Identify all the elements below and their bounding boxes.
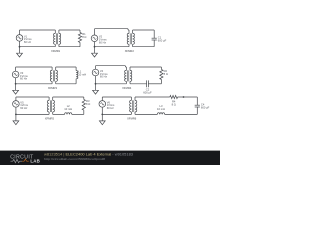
voltage source V2 <box>91 35 98 42</box>
label V5 value <box>20 100 28 110</box>
wire V3 bottom to XFMR3 primary <box>16 83 53 85</box>
resistor R2 8 &#937; <box>160 67 163 84</box>
wire V4 top wire upper segment <box>96 65 126 67</box>
wire XFMR3 secondary bottom to L1 <box>56 83 76 85</box>
wire XFMR4 secondary bottom to C2 <box>130 83 147 85</box>
svg-text:8 Ω: 8 Ω <box>164 72 168 76</box>
svg-text:XFMR5: XFMR5 <box>45 117 55 121</box>
wire V5 bottom to XFMR5 primary <box>16 113 49 115</box>
wire XFMR6 secondary top to R4 <box>135 96 170 98</box>
transformer XFMR1 primary winding <box>54 30 56 47</box>
label L1 value <box>78 70 86 77</box>
wire V2 top wire jog <box>127 29 129 30</box>
node junction at V1 <box>19 46 21 48</box>
node junction at V5 <box>15 114 17 116</box>
label V1 value <box>24 34 32 44</box>
svg-text:XFMR6: XFMR6 <box>127 117 137 121</box>
transformer XFMR3 core <box>53 70 54 81</box>
wire V2 bottom lead <box>94 42 96 47</box>
node junction at V2 <box>94 46 96 48</box>
wire V3 bottom lead <box>15 78 17 84</box>
wire V4 bottom to XFMR4 primary <box>96 83 127 85</box>
ground V1 <box>17 47 23 57</box>
CircuitLab logo waveform <box>11 159 23 162</box>
label C4 value <box>201 103 210 110</box>
svg-text:XFMR2: XFMR2 <box>125 49 135 53</box>
label V2 value <box>99 35 107 45</box>
node junction at V6 <box>101 114 103 116</box>
label L3 value <box>157 104 165 111</box>
label C2 value <box>143 88 152 95</box>
transformer XFMR2 secondary winding <box>133 30 135 47</box>
wire V1 bottom to XFMR1 primary <box>20 46 56 48</box>
label V4 value <box>100 69 108 79</box>
transformer XFMR1 core <box>57 33 58 44</box>
wire XFMR1 secondary bottom to R1 <box>59 46 80 48</box>
wire L3 to C4 bottom <box>165 113 198 115</box>
svg-text:60 Hz: 60 Hz <box>99 41 107 45</box>
ground V4 <box>93 84 99 94</box>
label R1 value <box>82 32 86 39</box>
wire V6 top to XFMR6 primary <box>102 96 131 98</box>
CircuitLab logo waveform orange segment <box>22 159 29 161</box>
label V6 value <box>107 100 115 110</box>
wire XFMR3 secondary top to L1 <box>56 66 76 68</box>
label C1 value <box>158 36 167 43</box>
voltage source V1 <box>16 35 23 42</box>
svg-text:60 Hz: 60 Hz <box>107 106 115 110</box>
wire XFMR5 secondary bottom to L2 <box>53 113 65 115</box>
transformer XFMR1 secondary winding <box>59 30 61 47</box>
wire V1 top lead <box>19 30 21 35</box>
svg-text:60 Hz: 60 Hz <box>20 77 28 81</box>
resistor R4 8 &#937; <box>170 95 178 98</box>
svg-text:XFMR1: XFMR1 <box>51 49 61 53</box>
transformer XFMR5 core <box>50 100 51 112</box>
wire V3 top lead <box>15 67 17 71</box>
inductor L2 10 mH <box>65 113 72 115</box>
transformer XFMR6 secondary winding <box>135 97 137 114</box>
wire V4 top to XFMR4 primary <box>125 66 126 68</box>
resistor R1 8 &#937; <box>78 30 81 47</box>
wire L2 to R3 bottom <box>72 113 84 115</box>
node junction at V3 <box>15 83 17 85</box>
transformer XFMR5 secondary winding <box>53 97 55 114</box>
svg-text:XFMR3: XFMR3 <box>48 86 58 90</box>
footer bar <box>0 151 220 165</box>
svg-text:60 Hz: 60 Hz <box>20 106 28 110</box>
svg-text:8 Ω: 8 Ω <box>82 35 86 39</box>
node junction on R4 output wire <box>183 96 185 98</box>
wire V5 top to XFMR5 primary <box>16 96 49 98</box>
wire V2 bottom to XFMR2 primary <box>95 46 130 48</box>
svg-text:600 µF: 600 µF <box>143 91 152 95</box>
capacitor C1 600 &#181;F <box>152 30 157 47</box>
label R3 value <box>86 99 90 106</box>
svg-text:600 µF: 600 µF <box>201 106 210 110</box>
transformer XFMR4 core <box>128 70 129 81</box>
voltage source V3 <box>12 71 19 78</box>
wire V6 top lead <box>101 97 103 101</box>
wire V4 top lead <box>95 66 97 70</box>
wire R4 to C4 top <box>178 96 198 98</box>
svg-text:http://circuitlab.com/c/5698/b: http://circuitlab.com/c/5698/bcu3pmd8 <box>44 157 105 161</box>
wire XFMR2 secondary bottom to C1 <box>133 46 155 48</box>
inductor L3 10 mH <box>157 113 164 115</box>
ground V5 <box>13 114 19 124</box>
wire XFMR4 secondary top to R2 <box>130 66 161 68</box>
wire V1 top to XFMR1 primary <box>20 29 56 31</box>
wire C2 to R2 bottom <box>148 83 161 85</box>
voltage source V6 <box>99 101 106 108</box>
transformer XFMR5 primary winding <box>47 97 49 114</box>
wire XFMR6 secondary bottom to L3 <box>135 113 157 115</box>
ground V2 <box>92 47 98 57</box>
svg-text:LAB: LAB <box>30 158 40 163</box>
wire V1 bottom lead <box>19 41 21 47</box>
svg-text:8 Ω: 8 Ω <box>86 102 90 106</box>
wire V6 bottom lead <box>101 107 103 114</box>
svg-text:10 mH: 10 mH <box>157 107 165 111</box>
wire V4 bottom lead <box>95 76 97 84</box>
svg-text:8 Ω: 8 Ω <box>172 102 176 106</box>
ground V3 <box>13 84 19 94</box>
capacitor C4 600 &#181;F <box>195 97 200 114</box>
ground V6 <box>99 114 105 124</box>
svg-text:60 Hz: 60 Hz <box>24 40 32 44</box>
transformer XFMR6 core <box>133 100 134 112</box>
voltage source V4 <box>92 69 99 76</box>
label L2 value <box>64 104 72 111</box>
wire V2 top lead <box>94 29 96 35</box>
transformer XFMR3 primary winding <box>50 67 52 84</box>
transformer XFMR4 primary winding <box>125 67 127 84</box>
wire V2 top wire upper segment <box>95 28 129 30</box>
wire XFMR1 secondary top to R1 <box>59 29 80 31</box>
wire V5 bottom lead <box>15 107 17 114</box>
voltage source V5 <box>13 101 20 108</box>
capacitor C2 600 &#181;F <box>147 80 149 87</box>
inductor L1 10 mH <box>76 67 78 84</box>
label V3 value <box>20 71 28 81</box>
wire V3 top to XFMR3 primary <box>16 66 53 68</box>
wire XFMR2 secondary top to C1 <box>133 29 155 31</box>
wire V6 bottom to XFMR6 primary <box>102 113 131 115</box>
wire V5 top lead <box>15 97 17 101</box>
wire V2 top to XFMR2 primary <box>128 29 129 31</box>
transformer XFMR2 core <box>130 33 131 44</box>
svg-text:10 mH: 10 mH <box>78 73 86 77</box>
label R4 value <box>172 99 176 106</box>
svg-text:600 µF: 600 µF <box>158 39 167 43</box>
node junction at V4 <box>95 83 97 85</box>
resistor R3 8 &#937; <box>82 97 85 114</box>
svg-text:XFMR4: XFMR4 <box>122 86 132 90</box>
svg-text:60 Hz: 60 Hz <box>100 75 108 79</box>
transformer XFMR3 secondary winding <box>56 67 58 84</box>
transformer XFMR4 secondary winding <box>130 67 132 84</box>
wire XFMR5 secondary top to R3 <box>53 96 84 98</box>
svg-text:10 mH: 10 mH <box>64 107 72 111</box>
transformer XFMR2 primary winding <box>127 30 129 47</box>
wire V4 top wire jog <box>124 66 126 67</box>
transformer XFMR6 primary winding <box>130 97 132 114</box>
label R2 value <box>164 69 168 76</box>
